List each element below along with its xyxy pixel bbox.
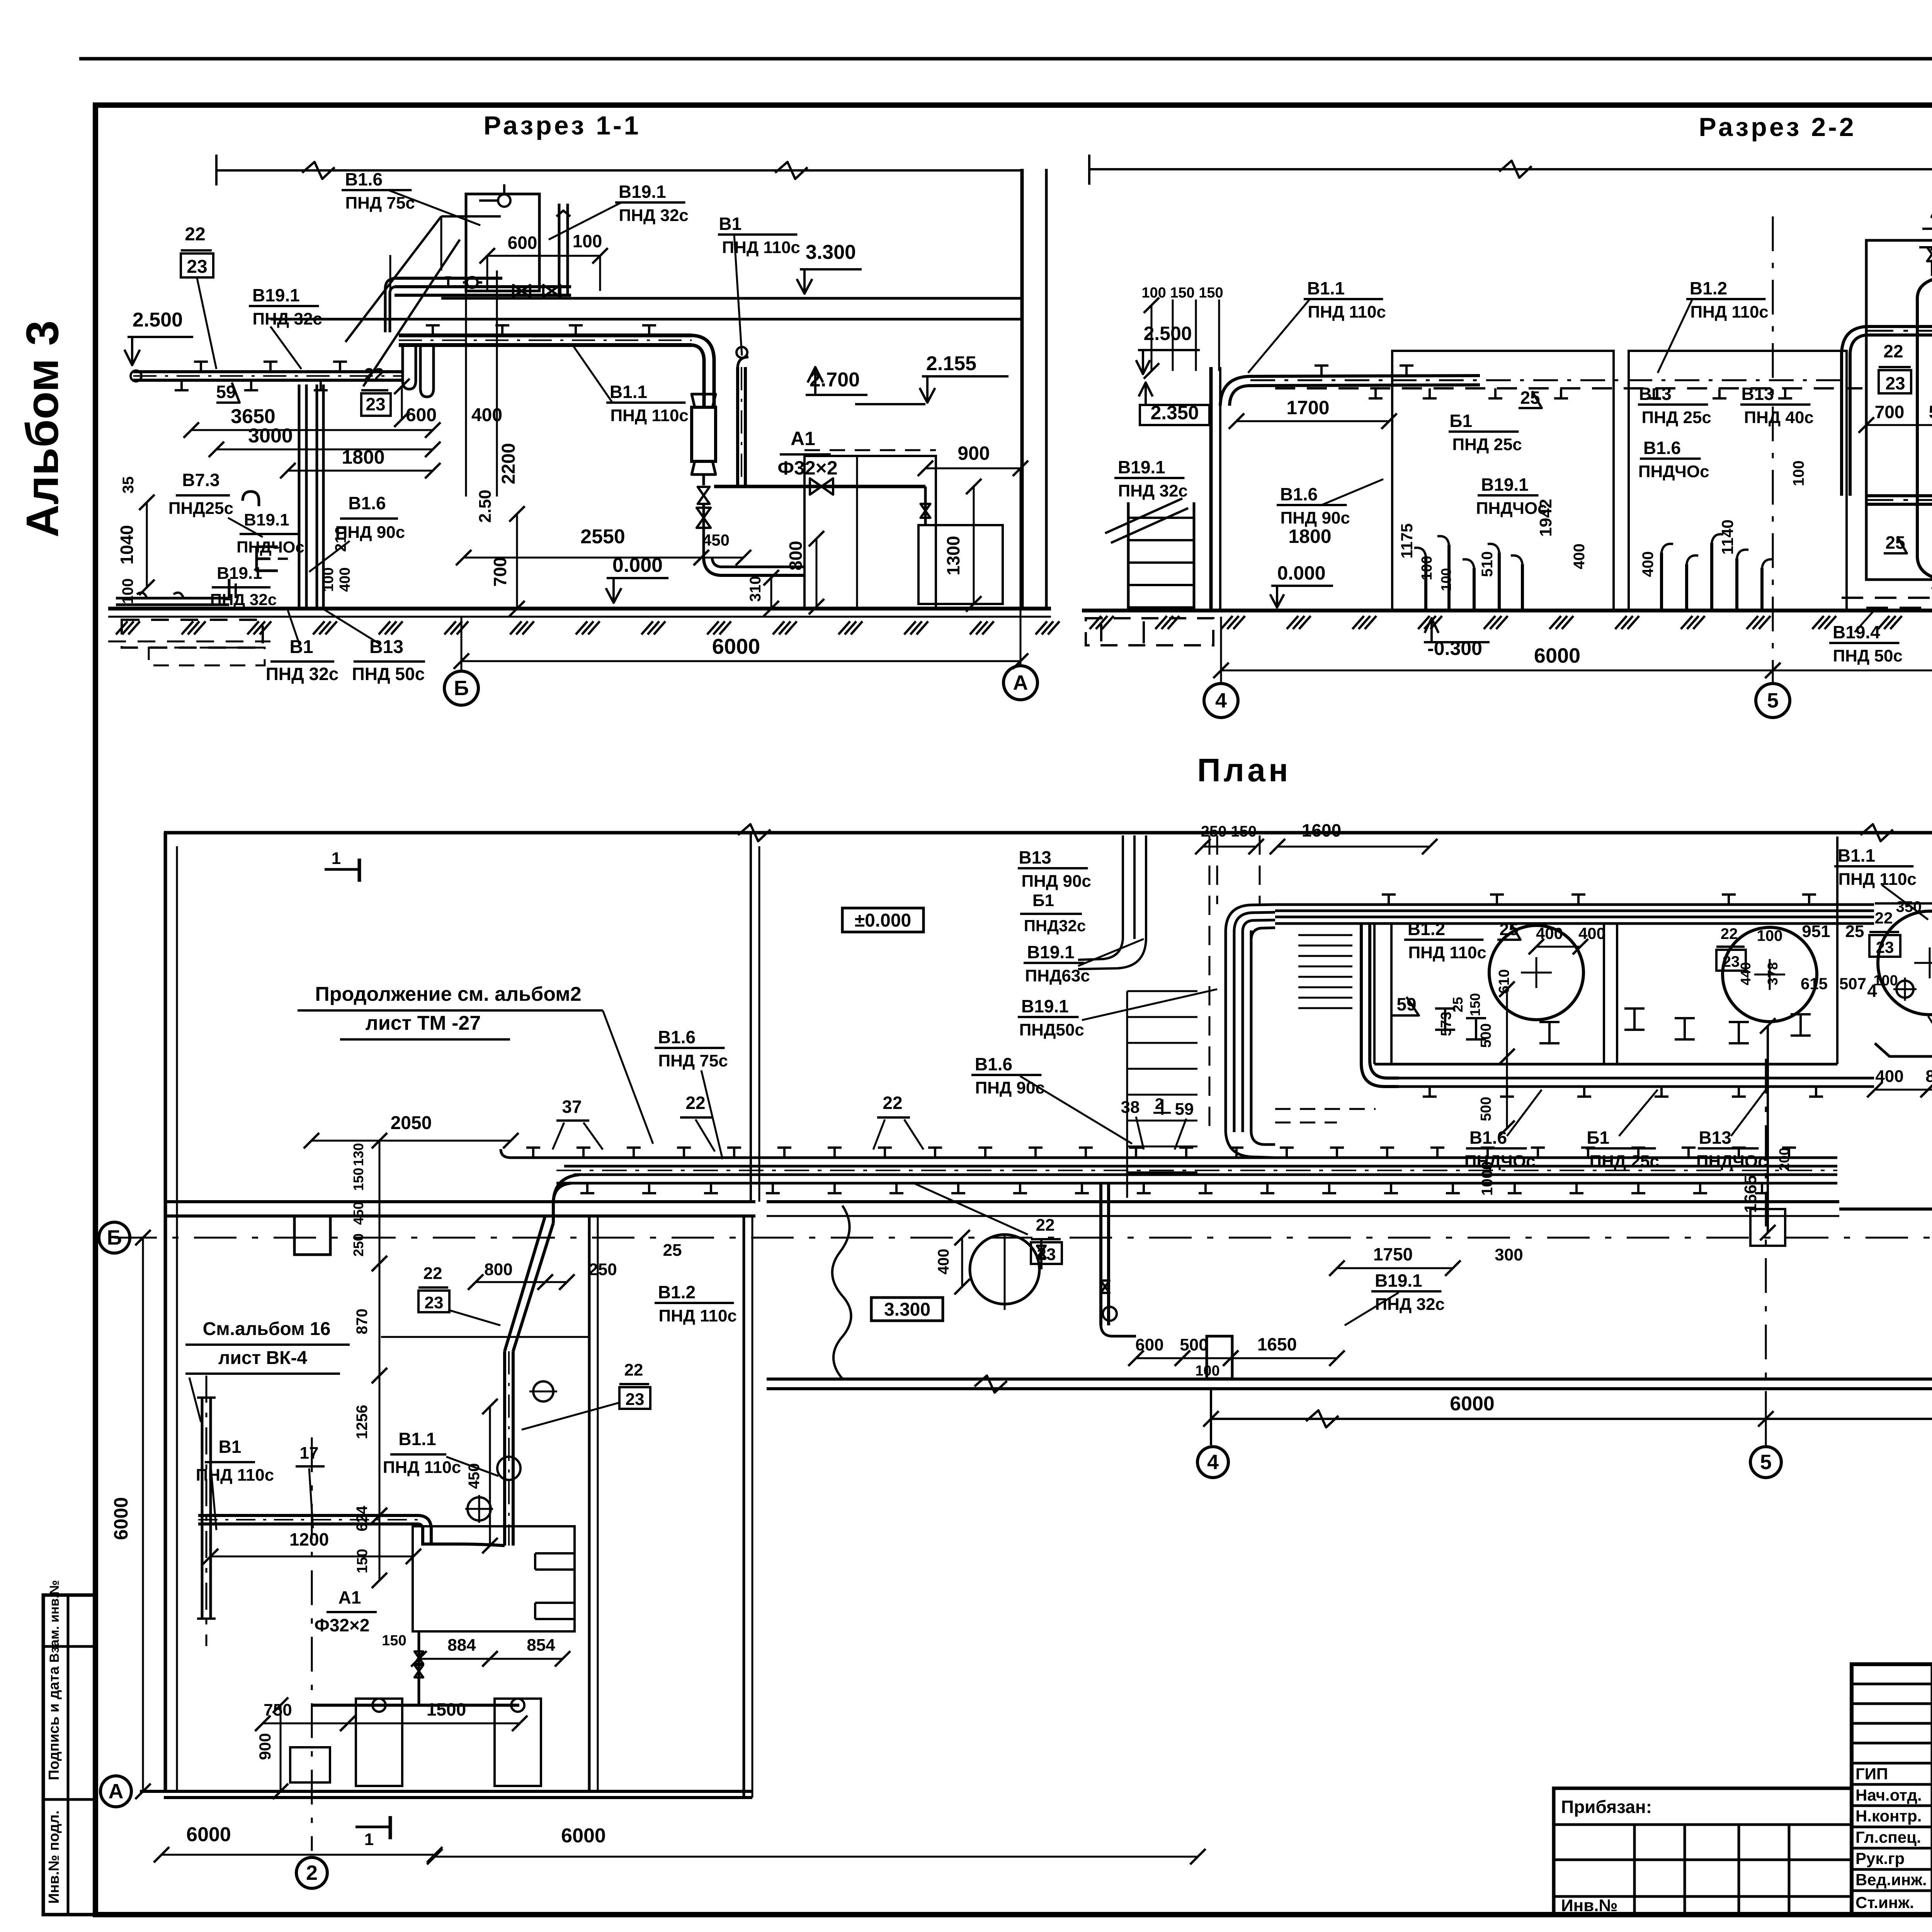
section 2-2 upper pipe across tanks (1866, 325, 1932, 328)
svg-text:100: 100 (320, 567, 337, 592)
plan vertical pipe B1.1 lower (503, 1351, 506, 1546)
section 2-2 underground left (1086, 618, 1213, 645)
svg-text:6000: 6000 (712, 634, 760, 658)
svg-text:ПНД 90с: ПНД 90с (1281, 509, 1350, 527)
svg-text:В19.1: В19.1 (217, 564, 262, 583)
plan pipe band hangers top (532, 1148, 534, 1158)
svg-text:400: 400 (1578, 924, 1605, 942)
svg-text:В19.1: В19.1 (252, 285, 300, 305)
plan section mark 1 top (325, 868, 359, 871)
svg-text:ПНД 110с: ПНД 110с (658, 1306, 736, 1325)
svg-text:25: 25 (1845, 922, 1864, 941)
section 2-2 dim 6000 row (1221, 670, 1773, 672)
plan small fittings in band rooms (1435, 1009, 1455, 1030)
svg-text:ПНД 32с: ПНД 32с (1118, 481, 1188, 500)
section 1-1 pump pedestal (918, 525, 1003, 604)
svg-text:Б1: Б1 (1587, 1128, 1609, 1148)
section 1-1 top dimension line (216, 169, 1022, 172)
plan pipe from band down x2860 (1099, 1183, 1102, 1325)
section 2-2 floor (1082, 609, 1932, 612)
plan bottom dim lines (162, 1854, 435, 1856)
plan tanks circles (1489, 925, 1583, 1020)
svg-text:Вед.инж.: Вед.инж. (1855, 1871, 1927, 1889)
svg-text:615: 615 (1801, 975, 1828, 993)
section 2-2 bottom dashed channel (1842, 597, 1932, 599)
plan tank room inner lines (1875, 902, 1932, 905)
svg-text:6000: 6000 (186, 1823, 231, 1846)
axis circle 2 plan (296, 1857, 327, 1888)
plan elevation mark 3.300 (871, 1298, 943, 1321)
svg-text:В13: В13 (1019, 847, 1051, 867)
axis circle A section 1-1 (1020, 468, 1022, 666)
axis circle B plan (99, 1222, 130, 1253)
svg-text:ПНД 32с: ПНД 32с (266, 664, 339, 684)
plan band left drop elbow (1370, 923, 1399, 1078)
axis circle 5 plan (1765, 1059, 1767, 1445)
plan tank crosses (1521, 972, 1552, 974)
svg-text:±0.000: ±0.000 (855, 910, 911, 931)
section 1-1 riser B19.1 (558, 204, 561, 295)
svg-text:100: 100 (119, 578, 136, 604)
svg-text:900: 900 (957, 442, 990, 464)
svg-text:400: 400 (471, 405, 502, 425)
svg-text:В1.6: В1.6 (348, 493, 386, 513)
svg-text:1650: 1650 (1257, 1334, 1297, 1354)
svg-text:ПНД 50с: ПНД 50с (352, 664, 425, 684)
plan interior wall x1963 upper (750, 833, 752, 1202)
plan riser bundle (1225, 930, 1227, 1132)
svg-text:440: 440 (1738, 962, 1753, 985)
svg-text:План: План (1197, 752, 1291, 788)
plan main pipe band (511, 1156, 1837, 1159)
svg-text:5: 5 (1760, 1451, 1772, 1474)
section 2-2 top pipe (1220, 376, 1480, 406)
svg-text:В1.6: В1.6 (658, 1027, 696, 1047)
svg-text:22: 22 (1721, 925, 1738, 942)
svg-text:Нач.отд.: Нач.отд. (1855, 1786, 1922, 1804)
svg-text:22: 22 (624, 1361, 643, 1379)
svg-text:100: 100 (1438, 568, 1454, 591)
svg-text:23: 23 (626, 1390, 645, 1409)
section 2-2 dashed line upper (1275, 387, 1862, 389)
svg-text:А: А (1013, 671, 1028, 694)
section 1-1 underground ducts (122, 620, 263, 648)
svg-text:22: 22 (1883, 341, 1903, 361)
svg-text:Разрез 1-1: Разрез 1-1 (483, 111, 641, 140)
svg-text:В1.1: В1.1 (398, 1429, 436, 1449)
section 1-1 left pipe run (133, 370, 402, 373)
svg-text:870: 870 (354, 1309, 371, 1335)
section 2-2 hangers on dashed line (1374, 388, 1377, 398)
plan B1.1 lower elbow (423, 1544, 505, 1546)
svg-text:23: 23 (425, 1293, 444, 1312)
svg-text:150: 150 (1467, 993, 1483, 1016)
section 1-1 hook B7.3 (243, 492, 259, 506)
svg-text:3.300: 3.300 (884, 1299, 930, 1320)
section 2-2 lower pipe across tanks (1866, 494, 1932, 497)
svg-text:ПНД 90с: ПНД 90с (975, 1078, 1045, 1097)
svg-text:130: 130 (350, 1143, 366, 1166)
svg-text:2200: 2200 (498, 443, 519, 485)
svg-text:Подпись и дата: Подпись и дата (46, 1666, 62, 1780)
svg-text:В19.1: В19.1 (1118, 457, 1165, 477)
svg-text:В19.1: В19.1 (1481, 474, 1529, 495)
svg-text:В19.1: В19.1 (244, 510, 289, 529)
svg-text:ПНДЧОс: ПНДЧОс (1696, 1152, 1767, 1171)
svg-text:А1: А1 (338, 1587, 361, 1607)
plan wall B (164, 1200, 755, 1203)
plan dashed channel right of riser (1275, 1122, 1337, 1124)
svg-text:100 150 150: 100 150 150 (1141, 285, 1223, 301)
svg-text:ПНД50с: ПНД50с (1019, 1020, 1084, 1039)
svg-text:35: 35 (120, 476, 137, 494)
svg-text:22: 22 (1875, 909, 1893, 927)
svg-text:ПНДЧОс: ПНДЧОс (1638, 462, 1709, 481)
svg-text:ПНД32с: ПНД32с (1024, 917, 1086, 935)
svg-text:В1.2: В1.2 (658, 1282, 696, 1302)
section 2-2 tank hall box (1866, 240, 1932, 580)
svg-text:150: 150 (354, 1549, 371, 1573)
svg-text:А: А (109, 1780, 124, 1803)
plan band left drop elbows (553, 1175, 580, 1223)
svg-text:В1.2: В1.2 (1690, 278, 1727, 298)
plan right vertical dash axis5 (1765, 1419, 1767, 1445)
svg-text:3.300: 3.300 (806, 241, 856, 264)
section 2-2 small risers room2 (1660, 553, 1663, 610)
plan lower pipe under band (1399, 1077, 1874, 1080)
section 1-1 floor (108, 607, 1051, 611)
svg-text:В1: В1 (289, 637, 313, 657)
svg-text:ПНД 110с: ПНД 110с (1408, 943, 1486, 962)
svg-text:4: 4 (1207, 1451, 1219, 1474)
svg-text:ПНД 110с: ПНД 110с (383, 1458, 461, 1477)
svg-text:В7.3: В7.3 (182, 470, 219, 490)
svg-text:800: 800 (484, 1260, 512, 1279)
plan small box bottom (290, 1747, 330, 1782)
section 2-2 left elbow of tank pipes (1842, 327, 1866, 496)
svg-text:0.000: 0.000 (612, 554, 663, 577)
svg-text:ПНД 90с: ПНД 90с (1022, 872, 1091, 891)
svg-text:600: 600 (508, 233, 537, 253)
axis circle B section 1-1 (461, 617, 463, 671)
svg-text:ПНДЧОс: ПНДЧОс (236, 538, 304, 556)
section 1-1 filter (692, 407, 716, 461)
svg-text:1800: 1800 (1288, 526, 1331, 547)
plan stair right of riser (1298, 934, 1352, 936)
plan top wall (164, 831, 1932, 835)
svg-text:Разрез 2-2: Разрез 2-2 (1699, 112, 1856, 142)
plan stair area (1127, 990, 1197, 992)
svg-text:В1.1: В1.1 (1307, 278, 1345, 298)
svg-text:ПНД63с: ПНД63с (1025, 966, 1090, 985)
svg-text:900: 900 (256, 1733, 274, 1760)
svg-text:Рук.гр: Рук.гр (1855, 1849, 1905, 1867)
svg-text:22: 22 (364, 364, 384, 384)
svg-text:1140: 1140 (1718, 519, 1736, 554)
plan tank nozzles (1896, 981, 1913, 998)
svg-text:1: 1 (332, 849, 341, 868)
svg-text:Продолжение см. альбом2: Продолжение см. альбом2 (315, 983, 581, 1005)
section 2-2 left wall (1209, 367, 1213, 611)
svg-text:500: 500 (1478, 1023, 1494, 1048)
svg-text:В19.1: В19.1 (619, 182, 666, 202)
section 1-1 background diagonals (345, 216, 441, 342)
plan interior wall x1947 (743, 1216, 745, 1798)
plan lower equipment box (413, 1526, 575, 1631)
svg-text:250: 250 (350, 1233, 366, 1257)
svg-text:В1.6: В1.6 (1280, 484, 1318, 504)
svg-text:В19.1: В19.1 (1021, 996, 1069, 1016)
svg-text:500: 500 (1180, 1335, 1208, 1354)
svg-text:1700: 1700 (1286, 397, 1329, 418)
svg-text:310: 310 (747, 576, 764, 602)
axis circle A plan (100, 1776, 131, 1807)
svg-text:Б1: Б1 (1032, 891, 1054, 910)
svg-text:854: 854 (527, 1636, 555, 1655)
svg-text:150: 150 (350, 1168, 366, 1191)
section 2-2 room box 1 (1392, 351, 1614, 611)
svg-text:2.500: 2.500 (133, 309, 183, 331)
svg-text:23: 23 (187, 257, 207, 277)
svg-text:4: 4 (1215, 689, 1227, 712)
section 1-1 fitting E (257, 547, 278, 571)
plan elevation mark 0.000 (842, 908, 923, 932)
section 1-1 vertical pipe B1 (736, 367, 739, 486)
svg-text:400: 400 (1639, 551, 1656, 577)
svg-text:Инв.№: Инв.№ (1561, 1896, 1618, 1915)
section 2-2 ladder (1127, 502, 1130, 610)
svg-text:100: 100 (1757, 927, 1783, 944)
svg-text:Прибязан:: Прибязан: (1561, 1797, 1652, 1817)
plan interior wall x1531 (588, 1216, 591, 1793)
svg-text:0.000: 0.000 (1277, 562, 1325, 584)
svg-text:800: 800 (1925, 1067, 1932, 1086)
axis circle 5 section 2-2 (1772, 216, 1774, 684)
svg-text:ПНД 32с: ПНД 32с (210, 590, 277, 609)
svg-text:200: 200 (1776, 1148, 1792, 1171)
svg-text:ПНД 40с: ПНД 40с (1744, 408, 1814, 427)
section 1-1 low horizontal pipe (116, 597, 229, 600)
svg-text:1500: 1500 (427, 1699, 466, 1719)
svg-text:6000: 6000 (561, 1825, 606, 1847)
svg-text:ПНД 32с: ПНД 32с (619, 206, 689, 225)
plan room divider line (381, 1336, 589, 1338)
svg-text:Ф32×2: Ф32×2 (315, 1615, 370, 1635)
svg-text:В19.4: В19.4 (1833, 622, 1880, 642)
svg-text:-0.300: -0.300 (1427, 638, 1482, 659)
svg-text:1040: 1040 (117, 525, 137, 565)
svg-text:510: 510 (1479, 551, 1496, 577)
svg-text:951: 951 (1802, 922, 1830, 941)
svg-text:1750: 1750 (1373, 1244, 1413, 1264)
svg-text:2050: 2050 (391, 1113, 432, 1133)
section 1-1 right wall (1020, 169, 1024, 609)
section 1-1 pipe A1 horizontal (714, 485, 925, 488)
svg-text:ПНД 25с: ПНД 25с (1590, 1152, 1659, 1171)
section 1-1 upper pipes (395, 277, 502, 280)
svg-text:В1: В1 (719, 214, 742, 234)
svg-text:37: 37 (562, 1097, 582, 1117)
svg-text:Н.контр.: Н.контр. (1855, 1807, 1922, 1825)
svg-text:507: 507 (1839, 975, 1866, 993)
svg-text:Альбом 3: Альбом 3 (17, 320, 68, 537)
svg-text:22: 22 (423, 1264, 442, 1283)
section 1-1 boiler box (804, 456, 936, 609)
svg-text:Ст.инж.: Ст.инж. (1855, 1893, 1914, 1912)
plan well circle (970, 1235, 1039, 1304)
svg-text:38: 38 (1121, 1098, 1140, 1117)
svg-text:1000: 1000 (1479, 1162, 1496, 1196)
plan left lower room pipes (201, 1398, 204, 1619)
svg-text:В1.2: В1.2 (1408, 919, 1445, 939)
plan tank room bottom edge (1374, 1063, 1837, 1066)
svg-text:В1.1: В1.1 (610, 382, 647, 402)
section 1-1 main pipe B1.1 horizontal (399, 333, 692, 337)
svg-text:В13: В13 (1741, 384, 1774, 404)
svg-text:4: 4 (1930, 203, 1932, 226)
svg-text:700: 700 (490, 557, 510, 587)
svg-text:лист ТМ -27: лист ТМ -27 (366, 1012, 481, 1034)
svg-text:450: 450 (350, 1202, 366, 1225)
svg-text:В13: В13 (1639, 384, 1671, 404)
svg-text:Взам. инв.№: Взам. инв.№ (47, 1580, 62, 1663)
plan pipe A1 vertical (418, 1631, 420, 1705)
section 1-1 ceiling lines (441, 297, 1022, 300)
svg-text:См.альбом 16: См.альбом 16 (203, 1319, 331, 1339)
svg-text:ПНД 32с: ПНД 32с (1375, 1295, 1445, 1314)
svg-text:1942: 1942 (1536, 499, 1555, 537)
svg-text:лист ВК-4: лист ВК-4 (218, 1348, 307, 1368)
svg-text:Гл.спец.: Гл.спец. (1855, 1828, 1921, 1846)
plan vertical axis2 dash (311, 1437, 313, 1851)
svg-text:ПНД 25с: ПНД 25с (1642, 408, 1711, 427)
svg-text:1: 1 (364, 1830, 374, 1849)
svg-text:250 150: 250 150 (1201, 823, 1257, 840)
svg-text:Инв.№ подл.: Инв.№ подл. (46, 1810, 62, 1904)
plan wall A (140, 1790, 752, 1793)
svg-text:100: 100 (1195, 1363, 1219, 1379)
svg-text:500: 500 (1929, 402, 1932, 422)
svg-text:ПНД 110с: ПНД 110с (1308, 303, 1386, 321)
svg-text:1256: 1256 (354, 1405, 371, 1439)
svg-text:ПНДЧОс: ПНДЧОс (1464, 1152, 1536, 1171)
svg-text:100: 100 (573, 231, 602, 251)
svg-text:450: 450 (466, 1463, 483, 1489)
plan pipe band hangers bottom (586, 1183, 588, 1193)
svg-text:22: 22 (685, 1093, 705, 1113)
svg-text:Б: Б (107, 1226, 122, 1249)
svg-text:23: 23 (1723, 953, 1740, 970)
svg-text:3000: 3000 (248, 425, 293, 447)
svg-text:400: 400 (935, 1249, 952, 1275)
section 2-2 room box 2 (1629, 351, 1847, 611)
attachment box (1554, 1788, 1852, 1915)
plan columns on wall B (294, 1216, 330, 1255)
section 2-2 small risers room1 (1424, 556, 1427, 610)
svg-text:100: 100 (1419, 556, 1435, 580)
svg-text:610: 610 (1496, 969, 1512, 993)
plan break wavy line (832, 1206, 851, 1379)
svg-text:300: 300 (1495, 1245, 1523, 1264)
plan left wall (164, 833, 167, 1793)
svg-text:В1.6: В1.6 (1469, 1128, 1507, 1148)
svg-text:ПНД 25с: ПНД 25с (1452, 435, 1522, 454)
svg-text:2550: 2550 (580, 526, 625, 548)
svg-text:400: 400 (1536, 924, 1563, 942)
svg-text:1800: 1800 (342, 446, 384, 468)
svg-text:ПНД 110с: ПНД 110с (1690, 303, 1768, 321)
svg-text:Б: Б (454, 677, 469, 700)
svg-text:В1: В1 (219, 1437, 241, 1457)
section 1-1 valves on pipe (513, 285, 530, 297)
svg-text:В19.1: В19.1 (1027, 942, 1075, 962)
svg-text:25: 25 (1450, 997, 1466, 1012)
plan tank room band walls (1373, 923, 1376, 1064)
svg-text:А1: А1 (791, 428, 815, 449)
svg-text:450: 450 (702, 531, 730, 549)
svg-text:ПНД 75с: ПНД 75с (658, 1051, 728, 1070)
svg-text:22: 22 (883, 1093, 902, 1113)
svg-text:2.155: 2.155 (926, 352, 976, 375)
svg-text:В13: В13 (1699, 1128, 1731, 1148)
plan section mark 1 bottom (355, 1826, 390, 1828)
svg-text:25: 25 (1885, 532, 1905, 553)
svg-text:400: 400 (1571, 544, 1588, 570)
svg-text:6000: 6000 (1450, 1393, 1495, 1415)
svg-text:ПНД 32с: ПНД 32с (253, 310, 322, 328)
plan upper band hangers (1388, 895, 1390, 905)
plan small flange circle room (533, 1381, 553, 1401)
svg-text:В19.1: В19.1 (1375, 1270, 1422, 1291)
svg-text:ПНД 110с: ПНД 110с (196, 1466, 274, 1485)
section 1-1 valve on riser (698, 487, 710, 504)
svg-text:ПНД25с: ПНД25с (168, 499, 233, 518)
svg-text:ГИП: ГИП (1855, 1765, 1888, 1783)
plan second riser dashes (1122, 835, 1124, 939)
axis circle 4 plan (1210, 1389, 1212, 1445)
plan lower long wall (767, 1378, 1932, 1381)
tank 1 (1917, 275, 1932, 582)
title block signature table (1852, 1664, 1932, 1915)
svg-text:22: 22 (185, 224, 205, 245)
svg-text:800: 800 (786, 541, 806, 571)
svg-text:59: 59 (1175, 1100, 1194, 1119)
svg-text:2.50: 2.50 (476, 490, 495, 523)
section 1-1 dim 6000 (461, 660, 1020, 662)
plan dim line right section (1211, 1418, 1932, 1420)
axis circle 4 section 2-2 (1220, 617, 1222, 684)
svg-text:ПНД 110с: ПНД 110с (1838, 870, 1916, 889)
svg-text:150: 150 (382, 1633, 406, 1649)
svg-text:23: 23 (366, 394, 385, 414)
section 1-1 elbow to floor level (704, 558, 804, 575)
svg-text:23: 23 (1885, 373, 1905, 393)
svg-text:1600: 1600 (1302, 820, 1341, 840)
section 2-2 top dimension line (1089, 168, 1932, 170)
section 1-1 small pipes lower left (298, 384, 301, 609)
svg-text:500: 500 (1478, 1097, 1494, 1121)
svg-text:400: 400 (337, 567, 353, 592)
svg-text:В1.6: В1.6 (975, 1054, 1012, 1074)
svg-text:700: 700 (1875, 402, 1905, 422)
svg-text:В1.6: В1.6 (1643, 438, 1681, 458)
left margin stamp boxes (43, 1595, 95, 1915)
svg-text:В1.6: В1.6 (345, 169, 383, 189)
svg-text:6000: 6000 (1534, 644, 1580, 667)
svg-text:1665: 1665 (1741, 1175, 1760, 1213)
svg-text:2.500: 2.500 (1143, 323, 1192, 344)
svg-text:100: 100 (1790, 461, 1807, 486)
